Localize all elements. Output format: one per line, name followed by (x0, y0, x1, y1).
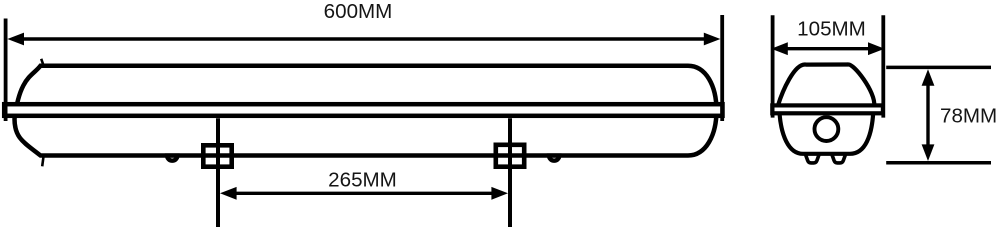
tick overshoot bottom-left (42, 157, 43, 167)
foot left (806, 155, 820, 163)
dome cover (top of end view) (778, 64, 875, 106)
arrowhead 265MM right (491, 187, 508, 200)
dimension line 265MM (232, 192, 496, 195)
extension line left (600MM) (4, 19, 8, 122)
mounting bracket square 2 (496, 145, 524, 167)
tick overshoot top-left (41, 59, 43, 65)
dimension line 105MM (783, 47, 872, 50)
extension line left (105MM) (771, 15, 775, 117)
dimension line 600MM (20, 37, 708, 40)
extension line right (600MM) (720, 15, 724, 121)
arrowhead 600MM right (704, 33, 721, 46)
base tub (bottom of end view) (780, 113, 874, 154)
flange band (end view) (772, 105, 883, 113)
svg-text:265MM: 265MM (328, 169, 397, 192)
extension line right (105MM) (881, 15, 885, 117)
clip band (long flange strip over body) (4, 104, 722, 116)
extension line top (78MM) (886, 66, 991, 70)
mounting bracket square 1 (203, 145, 231, 166)
dimension line 78MM (926, 80, 929, 150)
arrowhead 105MM right (868, 42, 885, 55)
arrowhead 265MM left (220, 187, 237, 200)
svg-text:78MM: 78MM (940, 104, 997, 127)
arrowhead 78MM bottom (922, 144, 935, 161)
luminaire body (stadium outline) (15, 66, 717, 156)
cable gland circle (815, 117, 839, 141)
extension line bottom (78MM) (886, 161, 991, 165)
svg-text:600MM: 600MM (324, 0, 393, 23)
foot right (832, 155, 846, 163)
arrowhead 105MM left (771, 42, 788, 55)
arrowhead 78MM top (922, 69, 935, 86)
latch bump right (below bottom edge) (549, 156, 559, 161)
latch bump left (below bottom edge) (167, 156, 177, 161)
svg-text:105MM: 105MM (797, 18, 866, 41)
centerline bracket 2 (508, 118, 512, 227)
centerline bracket 1 (216, 118, 220, 227)
arrowhead 600MM left (7, 33, 24, 46)
